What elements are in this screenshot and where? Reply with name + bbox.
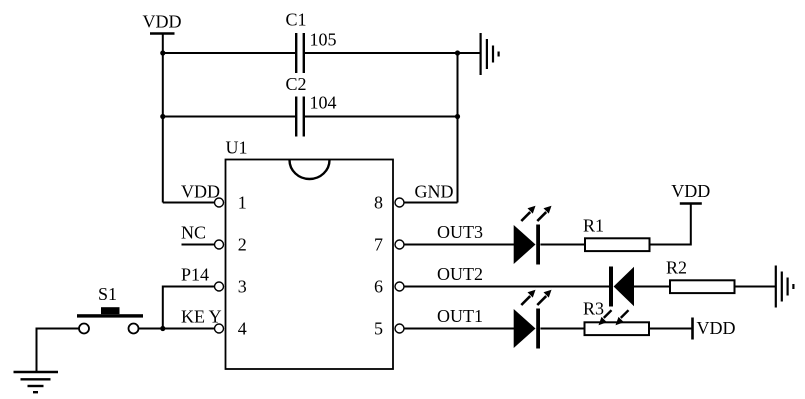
svg-text:OUT1: OUT1 [437,306,483,326]
LED D1 (on OUT1, pointing right) [514,290,552,349]
svg-text:OUT2: OUT2 [437,264,483,284]
pin 6 circle (OUT2) [395,282,404,291]
svg-text:NC: NC [181,223,206,243]
wire stub to top-right earth ground [458,52,481,54]
wire LED D3 to R1 [540,244,585,246]
wire pin1 to VDD rail [163,202,215,204]
svg-text:P14: P14 [181,265,209,285]
svg-text:VDD: VDD [697,318,736,338]
wire LED D2 to R2 [634,286,670,288]
wire R3 to VDD flag [649,328,692,330]
wire R1 to VDD flag [650,204,691,245]
svg-text:S1: S1 [98,284,117,304]
power flag VDD top-left [143,12,182,34]
wire pin3 to key net [163,287,215,329]
svg-text:VDD: VDD [671,181,710,201]
pin 1 circle (VDD) [215,198,224,207]
pin 3 circle (P14) [215,282,224,291]
capacitor C2 [286,74,337,137]
LED D3 (on OUT3, pointing right) [514,206,552,265]
capacitor C1 [286,10,337,74]
svg-text:C2: C2 [286,74,307,94]
svg-text:VDD: VDD [181,182,220,202]
resistor R2 [666,258,735,294]
pin 2 circle (NC) [215,240,224,249]
junction at VDD rail / C1 row [160,50,165,55]
power flag VDD (right of R3, sideways) [693,318,736,340]
svg-text:7: 7 [374,235,383,255]
wire right vertical (x=457.5 from C1 row down to GND pin row) [457,53,459,203]
wire pin7 to LED D3 [404,244,514,246]
svg-text:KE Y: KE Y [181,307,222,327]
wire C2 row left segment [163,116,295,118]
svg-text:U1: U1 [226,138,248,158]
earth ground (bottom left) [14,372,59,392]
wire C1 row left segment [163,52,295,54]
svg-text:4: 4 [238,319,247,339]
svg-text:105: 105 [310,30,337,50]
svg-text:R1: R1 [583,216,604,236]
svg-text:8: 8 [374,193,383,213]
svg-text:6: 6 [374,277,383,297]
svg-text:R3: R3 [583,299,604,319]
svg-text:GND: GND [415,182,454,202]
svg-text:R2: R2 [666,258,687,278]
svg-text:C1: C1 [286,10,307,30]
earth ground (right, sideways) [776,266,794,308]
wire R2 to earth ground [735,286,776,288]
wire C1 row right segment [305,52,458,54]
resistor R3 (photo, arrows pointing in) [583,299,649,336]
IC U1 notch (top semicircle) [290,160,330,179]
IC U1 body [226,138,394,370]
wire pin6 to LED D2 [404,286,609,288]
junction key net [160,326,165,331]
pin 5 circle (OUT1) [395,324,404,333]
wire VDD rail vertical (x=162.8, from VDD bar down to pin1 row) [162,34,164,203]
junction right vertical / C1 row [455,50,460,55]
wire switch to ground [37,329,80,372]
junction right vertical / C2 row [455,114,460,119]
junction at VDD rail / C2 row [160,114,165,119]
power flag VDD (right of R1) [671,181,710,204]
svg-text:3: 3 [238,277,247,297]
wire NC stub (unconnected) [182,244,215,246]
svg-text:VDD: VDD [143,12,182,32]
pin 4 circle (KEY) [215,324,224,333]
resistor R1 [583,216,650,252]
wire pin4 to switch [139,328,215,330]
earth ground (top right, sideways) [481,33,499,75]
svg-text:104: 104 [310,93,337,113]
LED D2 (on OUT2, pointing left) [609,267,634,307]
svg-text:1: 1 [238,193,247,213]
svg-text:2: 2 [238,235,247,255]
pin 8 circle (GND) [395,198,404,207]
switch S1 [77,284,143,334]
wire C2 row right segment [305,116,458,118]
pin 7 circle (OUT3) [395,240,404,249]
wire pin5 to LED D1 [404,328,514,330]
svg-text:5: 5 [374,319,383,339]
svg-text:OUT3: OUT3 [437,222,483,242]
wire LED D1 to R3 [540,328,584,330]
wire pin8 to right vertical [404,202,458,204]
